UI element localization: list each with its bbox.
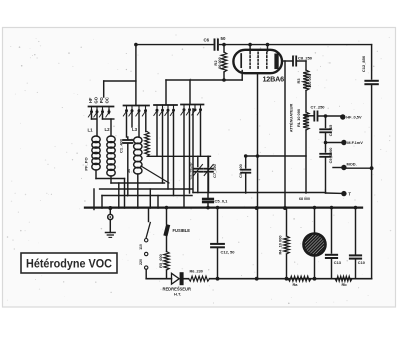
capacitor C6	[215, 39, 218, 49]
wire	[331, 208, 333, 253]
label C7_490	[212, 164, 217, 178]
wire	[110, 119, 112, 136]
wire	[223, 72, 225, 80]
wire	[118, 183, 120, 208]
junction	[222, 43, 226, 47]
wire	[331, 258, 333, 279]
wire	[93, 189, 95, 210]
wire	[245, 173, 247, 193]
wire	[220, 44, 372, 46]
rotary switch wafer S1a	[88, 107, 113, 118]
junction	[256, 154, 260, 158]
capacitor C9 100	[241, 170, 250, 173]
label 100 000	[308, 74, 312, 88]
wire	[102, 195, 192, 197]
pilot lamp	[291, 208, 339, 279]
junction	[304, 114, 308, 118]
junction	[216, 206, 220, 210]
rotary switch wafer S1b	[123, 106, 149, 117]
resistor R6 230	[189, 276, 210, 281]
label C8_250	[298, 56, 313, 61]
wire	[138, 110, 140, 137]
label 50	[221, 36, 226, 41]
svg-text:12BA6: 12BA6	[263, 75, 285, 84]
svg-text:R3: R3	[296, 78, 301, 84]
label PF_PO	[84, 157, 89, 170]
svg-text:H.T.: H.T.	[174, 292, 181, 297]
band label HF	[88, 97, 93, 103]
rotary switch wafer S1d	[181, 105, 204, 116]
junction	[266, 43, 270, 47]
resistor R2	[221, 52, 227, 72]
wire	[284, 61, 286, 208]
wire	[347, 167, 372, 169]
label T	[348, 191, 351, 196]
svg-text:T: T	[348, 191, 351, 196]
wire	[189, 109, 191, 193]
wire	[325, 157, 327, 193]
wire	[355, 208, 357, 254]
wire	[207, 156, 209, 197]
junction	[222, 78, 226, 82]
wire	[305, 130, 307, 193]
capacitor C8 250	[293, 56, 296, 65]
svg-text:HF: HF	[88, 97, 93, 103]
label R4_10 000	[278, 235, 283, 254]
wire	[245, 156, 247, 168]
wire	[173, 109, 175, 195]
wire	[208, 174, 210, 193]
wire	[141, 166, 169, 183]
capacitor C1 400	[123, 140, 132, 143]
svg-text:68 000: 68 000	[299, 197, 310, 201]
svg-text:MOD.: MOD.	[347, 162, 357, 167]
trimmer C7 490	[204, 165, 213, 176]
svg-text:C7_490: C7_490	[212, 164, 217, 178]
wire	[149, 189, 151, 208]
wire	[157, 196, 159, 209]
wire	[148, 155, 210, 157]
label C12, 50	[221, 249, 236, 254]
label C12_850	[361, 55, 366, 72]
ground	[106, 208, 116, 237]
wire	[193, 192, 326, 194]
label 110	[139, 244, 143, 250]
resistor R3 100 000	[303, 70, 309, 91]
wire	[217, 247, 219, 278]
bus wire	[85, 206, 362, 208]
junction	[324, 141, 328, 145]
label R3	[296, 78, 301, 84]
svg-text:50: 50	[126, 168, 131, 173]
svg-text:C8_250: C8_250	[298, 56, 313, 61]
coil L3	[134, 137, 142, 174]
svg-text:RL 10 000: RL 10 000	[296, 109, 301, 127]
label Ra	[293, 282, 299, 287]
label 68 000	[299, 197, 310, 201]
svg-text:M.F.1mV: M.F.1mV	[347, 140, 363, 145]
label RL 10 000	[296, 109, 301, 127]
wire	[257, 73, 259, 279]
svg-text:C6: C6	[204, 38, 210, 43]
wire	[101, 196, 103, 209]
label HF 0,5V	[346, 115, 362, 120]
svg-text:C9_1000: C9_1000	[328, 148, 333, 164]
wire	[183, 109, 185, 208]
svg-text:C5_0,1: C5_0,1	[215, 198, 229, 203]
capacitor C9 1000	[320, 154, 331, 157]
wire	[200, 109, 202, 156]
label L3	[132, 127, 138, 132]
svg-text:L1: L1	[88, 128, 94, 133]
label L2	[105, 127, 111, 132]
junction	[313, 277, 317, 281]
wire	[184, 278, 189, 280]
label C8_15	[328, 124, 333, 136]
svg-text:C7_250: C7_250	[311, 105, 326, 110]
rectifier D1	[172, 272, 184, 285]
capacitor C5 0,1	[203, 199, 213, 202]
wire	[305, 91, 307, 113]
wire	[326, 192, 342, 194]
terminal HF	[340, 114, 345, 119]
label Rb	[342, 282, 348, 287]
capacitor C7 250	[314, 111, 317, 120]
capacitor C10	[350, 255, 361, 258]
wire	[110, 176, 112, 183]
label 50 000	[218, 57, 222, 68]
trimmer C2 62,5p	[193, 165, 202, 176]
junction	[285, 277, 289, 281]
wire	[325, 116, 327, 128]
wire	[355, 259, 357, 279]
svg-text:50: 50	[221, 36, 226, 41]
svg-text:50 000: 50 000	[218, 57, 222, 68]
svg-text:L2: L2	[105, 127, 111, 132]
svg-text:100 000: 100 000	[308, 74, 312, 88]
terminal MF	[341, 140, 346, 145]
svg-text:HF_0,5V: HF_0,5V	[346, 115, 362, 120]
svg-text:Hétérodyne VOC: Hétérodyne VOC	[26, 256, 112, 270]
wire	[166, 79, 242, 81]
resistor R4 10 000	[284, 236, 290, 254]
svg-text:OC: OC	[105, 97, 110, 103]
wire	[286, 208, 288, 236]
label 220	[139, 259, 143, 265]
wire	[166, 270, 168, 279]
capacitor C12 50	[211, 244, 224, 247]
wire	[267, 45, 269, 51]
label H.T.	[174, 292, 181, 297]
label R6_230	[190, 269, 203, 273]
svg-text:C12_850: C12_850	[361, 55, 366, 72]
junction	[108, 206, 112, 210]
wire	[126, 110, 128, 137]
label C1_400	[119, 138, 124, 153]
label M.F. 1mV	[347, 140, 363, 145]
wire	[371, 84, 373, 279]
wire	[145, 110, 147, 132]
tube V1 12BA6	[233, 50, 282, 73]
label C9_1000	[328, 148, 333, 164]
wire	[326, 142, 342, 144]
potentiometer RL 10 000 (attenuateur)	[303, 112, 309, 130]
svg-text:C10: C10	[358, 260, 365, 265]
svg-text:ATTÉNUATEUR: ATTÉNUATEUR	[289, 104, 294, 133]
svg-text:C1_400: C1_400	[119, 138, 124, 153]
wire	[146, 278, 171, 280]
rotary switch wafer S1c	[154, 105, 177, 116]
svg-text:C2_62,5p: C2_62,5p	[188, 162, 193, 180]
svg-text:C13: C13	[334, 260, 342, 265]
wire	[246, 155, 306, 157]
wire	[189, 80, 191, 105]
svg-text:220: 220	[139, 259, 143, 265]
wire	[210, 278, 372, 280]
wire	[197, 156, 199, 166]
junction	[370, 166, 374, 170]
junction	[283, 206, 287, 210]
resistor Rb	[335, 276, 352, 281]
junction	[206, 206, 210, 210]
wire	[297, 60, 306, 62]
wire	[124, 179, 126, 209]
coil L2	[107, 136, 115, 176]
wire	[167, 109, 169, 189]
wire	[108, 110, 110, 114]
svg-text:FUSIBLE: FUSIBLE	[173, 228, 191, 233]
resistor R1	[145, 132, 150, 157]
wire	[318, 115, 343, 117]
svg-text:C9_100: C9_100	[238, 164, 243, 178]
junction	[255, 206, 259, 210]
wire	[96, 178, 125, 180]
label C6	[204, 38, 210, 43]
svg-text:R4_10 000: R4_10 000	[278, 235, 283, 254]
label C10	[358, 260, 365, 265]
wire	[207, 202, 209, 208]
label C7_250	[311, 105, 326, 110]
junction	[330, 206, 334, 210]
terminal T	[341, 191, 346, 196]
wire	[208, 156, 210, 166]
wire	[165, 80, 167, 105]
label ATTENUATEUR	[289, 104, 294, 133]
junction	[354, 206, 358, 210]
fuse F1	[163, 208, 170, 252]
junction	[134, 43, 138, 47]
capacitor C8 15	[320, 129, 331, 132]
wire	[92, 118, 97, 120]
label MOD.	[347, 162, 357, 167]
junction	[255, 277, 259, 281]
svg-text:Rb: Rb	[342, 282, 348, 287]
svg-text:PF_PO: PF_PO	[84, 157, 89, 170]
junction	[216, 277, 220, 281]
wire	[286, 254, 288, 279]
wire	[127, 137, 129, 139]
band label PO	[99, 97, 104, 104]
label C9_100	[238, 164, 243, 178]
svg-text:L3: L3	[132, 127, 138, 132]
title box Hétérodyne VOC	[21, 253, 117, 273]
wire	[111, 182, 165, 184]
junction	[165, 206, 169, 210]
wire	[241, 71, 243, 81]
svg-text:C12, 50: C12, 50	[221, 249, 236, 254]
wire	[333, 167, 342, 169]
wire	[162, 109, 164, 183]
wire	[91, 110, 93, 119]
band label OC	[105, 97, 110, 103]
junction	[248, 43, 252, 47]
label REDRESSEUR	[163, 286, 191, 291]
svg-text:110: 110	[139, 244, 143, 250]
wire	[95, 170, 97, 179]
svg-text:Ra: Ra	[293, 282, 299, 287]
label C5_0,1	[215, 198, 229, 203]
label 50	[126, 168, 131, 173]
wire	[306, 115, 313, 117]
wire	[103, 81, 105, 97]
wire	[371, 45, 373, 79]
wire	[137, 174, 139, 208]
wire	[127, 143, 129, 195]
wire	[305, 61, 307, 70]
label 12BA6	[263, 75, 285, 84]
wire	[197, 174, 199, 193]
svg-text:R5_600: R5_600	[158, 254, 163, 268]
wire	[100, 188, 192, 190]
label R2	[213, 60, 218, 66]
junction	[324, 114, 328, 118]
wire	[102, 110, 104, 119]
wire	[223, 45, 225, 52]
wire	[284, 60, 293, 62]
svg-text:GO: GO	[93, 96, 98, 103]
wire	[217, 208, 219, 242]
resistor R5 600	[164, 252, 169, 271]
label R5_600	[158, 254, 163, 268]
coil L1	[92, 136, 100, 170]
wire	[325, 132, 327, 152]
svg-text:C8_15: C8_15	[328, 124, 333, 136]
wire	[249, 45, 251, 51]
mains switch S2	[145, 208, 151, 279]
svg-text:R6_230: R6_230	[190, 269, 203, 273]
junction	[313, 206, 317, 210]
capacitor C12 850	[365, 81, 377, 84]
wire	[131, 110, 133, 127]
junction	[244, 154, 248, 158]
label L1	[88, 128, 94, 133]
wire	[135, 44, 137, 106]
label C2_62,5p	[188, 162, 193, 180]
wire	[103, 118, 114, 120]
wire	[96, 110, 98, 136]
band label GO	[93, 96, 98, 103]
resistor Ra	[288, 276, 311, 281]
terminal MOD	[341, 165, 346, 170]
wire	[156, 109, 158, 156]
wire	[136, 44, 213, 46]
svg-text:REDRESSEUR: REDRESSEUR	[163, 286, 191, 291]
wire	[104, 80, 136, 82]
label FUSIBLE	[173, 228, 191, 233]
label C13	[334, 260, 342, 265]
wire	[192, 109, 194, 193]
capacitor C13	[326, 255, 337, 258]
